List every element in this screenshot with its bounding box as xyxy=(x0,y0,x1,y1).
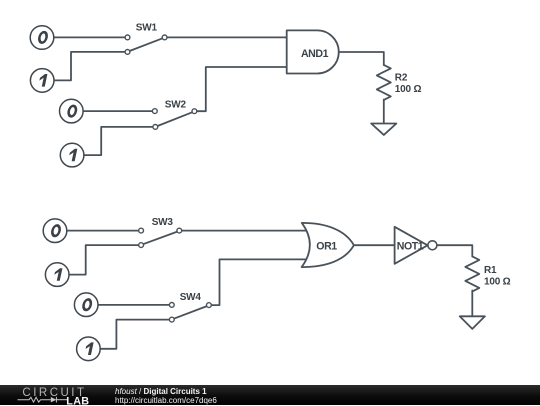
node label 1 (SW4) xyxy=(84,342,93,355)
resistor R2 xyxy=(377,65,391,100)
OR gate OR1 xyxy=(302,223,354,267)
node 0 input of SW2 xyxy=(60,99,84,123)
wire R1 to ground xyxy=(471,291,473,317)
switch SW1 throw2 terminal xyxy=(125,50,130,55)
node 0 input of SW3 xyxy=(43,219,67,243)
node 1 input of SW1 xyxy=(30,69,54,93)
wire node0b to SW2 throw1 xyxy=(83,110,152,112)
ground for R2 xyxy=(371,124,396,135)
wire node1b to SW2 throw2 xyxy=(84,127,153,155)
wire node0d to SW4 throw1 xyxy=(98,304,169,306)
switch SW1 throw1 terminal xyxy=(125,35,130,40)
node label 1 (SW2) xyxy=(68,149,77,162)
wire node1c to SW3 throw2 xyxy=(69,245,139,275)
svg-text:SW1: SW1 xyxy=(136,23,158,34)
AND gate AND1 xyxy=(287,30,339,73)
footer url text xyxy=(115,397,217,405)
footer title text xyxy=(115,388,207,396)
svg-text:SW3: SW3 xyxy=(152,217,174,228)
switch SW4 throw1 terminal xyxy=(169,303,174,308)
switch SW4 lever xyxy=(174,306,207,319)
svg-text:R1: R1 xyxy=(484,265,497,276)
node label 0 (SW1) xyxy=(39,32,48,43)
wire node0c to SW3 throw1 xyxy=(67,230,139,232)
wire OR1 output to NOT1 input xyxy=(354,244,396,246)
ground for R1 xyxy=(460,316,485,329)
NOT1 output bubble xyxy=(428,241,437,250)
svg-text:R2: R2 xyxy=(395,72,408,83)
wire AND1 output to R2 xyxy=(339,52,384,65)
switch SW4 throw2 terminal xyxy=(169,317,174,322)
svg-text:LAB: LAB xyxy=(66,395,89,405)
svg-text:100 Ω: 100 Ω xyxy=(484,276,511,287)
switch SW4 common terminal xyxy=(207,303,212,308)
switch SW2 throw1 terminal xyxy=(152,109,157,114)
switch SW2 common terminal xyxy=(192,109,197,114)
svg-text:SW4: SW4 xyxy=(180,292,202,303)
node 1 input of SW3 xyxy=(45,263,69,287)
node 0 input of SW1 xyxy=(30,26,54,50)
switch SW3 throw1 terminal xyxy=(139,228,144,233)
switch SW1 common terminal xyxy=(162,35,167,40)
wire node1a to SW1 throw2 xyxy=(54,52,126,81)
wire node0a to SW1 throw1 xyxy=(54,36,126,38)
svg-text:NOT1: NOT1 xyxy=(397,240,424,252)
node 0 input of SW4 xyxy=(74,293,98,317)
switch SW3 lever xyxy=(143,232,177,245)
CircuitLab logo wordmark CIRCUIT and LAB with resistor-diode symbol xyxy=(0,385,110,406)
wire SW3 common to OR1 input A xyxy=(182,230,309,232)
wire SW2 common to AND1 input B xyxy=(197,67,288,111)
switch SW3 common terminal xyxy=(177,228,182,233)
switch SW2 lever xyxy=(158,112,193,126)
wire SW1 common to AND1 input A xyxy=(167,36,288,38)
wire NOT1 output to R1 xyxy=(437,245,472,256)
node label 1 (SW1) xyxy=(38,74,47,87)
NOT gate NOT1 xyxy=(395,227,428,264)
node label 0 (SW2) xyxy=(68,106,77,117)
node 1 input of SW4 xyxy=(77,337,101,361)
svg-text:100 Ω: 100 Ω xyxy=(395,84,422,95)
wire node1d to SW4 throw2 xyxy=(100,320,169,349)
wire SW4 common to OR1 input B xyxy=(211,259,309,305)
node 1 input of SW2 xyxy=(60,143,84,167)
node label 1 (SW3) xyxy=(53,268,62,281)
svg-text:SW2: SW2 xyxy=(165,100,187,111)
wire R2 to ground xyxy=(383,100,385,124)
svg-text:AND1: AND1 xyxy=(301,48,329,60)
node label 0 (SW4) xyxy=(83,299,92,310)
switch SW3 throw2 terminal xyxy=(139,243,144,248)
switch SW1 lever xyxy=(130,38,163,51)
resistor R1 xyxy=(465,256,479,291)
svg-text:OR1: OR1 xyxy=(316,240,337,252)
node label 0 (SW3) xyxy=(52,225,61,236)
switch SW2 throw2 terminal xyxy=(153,125,158,130)
